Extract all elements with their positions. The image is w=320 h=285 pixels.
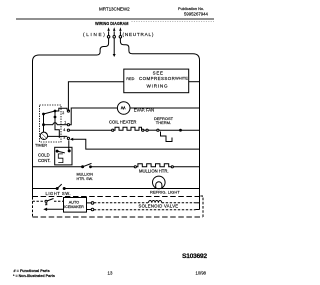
svg-text:SEE: SEE xyxy=(153,71,164,76)
wire evap fan to right rail xyxy=(130,107,200,109)
svg-text:1: 1 xyxy=(64,121,66,125)
timer motor xyxy=(40,132,47,139)
timer terminals xyxy=(67,110,69,112)
svg-text:COLD: COLD xyxy=(38,153,50,158)
plug prong line xyxy=(107,27,110,38)
svg-text:REFRIG. LIGHT: REFRIG. LIGHT xyxy=(150,190,180,195)
ground prong stub with arrow xyxy=(113,38,115,54)
icemaker upper dashed wire xyxy=(33,200,45,202)
wire resistor to defrost thermostat xyxy=(144,129,146,131)
wire timer T3 to right rail xyxy=(71,139,200,149)
timer contact dots and arms xyxy=(43,108,68,138)
cold control box xyxy=(55,147,72,165)
left rail dashed lower part xyxy=(32,197,34,217)
plug prong neutral xyxy=(119,27,122,38)
plug prong ground xyxy=(113,27,116,38)
wire compressor to right rail (WHITE) xyxy=(189,81,200,83)
svg-text:LIGHT SW.: LIGHT SW. xyxy=(46,191,72,196)
right rail bottom stub xyxy=(196,209,200,211)
svg-text:5995267944: 5995267944 xyxy=(184,11,209,16)
wire switch to mullion heater xyxy=(91,166,134,168)
svg-text:2: 2 xyxy=(62,111,64,115)
refrigerator light bulb xyxy=(153,176,166,189)
dashed wire icemaker to solenoid xyxy=(94,202,148,204)
coil heater resistor xyxy=(112,127,144,131)
mullion heater row wire xyxy=(33,166,82,168)
svg-text:HTR. SW.: HTR. SW. xyxy=(77,177,93,181)
svg-text:10/98: 10/98 xyxy=(196,270,207,275)
mullion heater switch xyxy=(82,163,92,167)
svg-text:MULLION HTR.: MULLION HTR. xyxy=(139,169,169,174)
svg-text:* = Non-Illustrated Parts: * = Non-Illustrated Parts xyxy=(13,274,55,278)
wire timer T4 to coil heater xyxy=(70,129,113,131)
svg-text:Publication No.: Publication No. xyxy=(178,6,204,11)
dashed lower icemaker wire to rail xyxy=(94,209,196,211)
svg-text:S103692: S103692 xyxy=(182,253,207,260)
wire defrost thermostat to right rail xyxy=(159,129,200,131)
wire switch to light xyxy=(65,188,199,190)
svg-text:(NEUTRAL): (NEUTRAL) xyxy=(123,32,155,37)
light switch xyxy=(56,184,65,189)
svg-text:SOLENOID VALVE: SOLENOID VALVE xyxy=(139,203,179,208)
bottom dashed rail xyxy=(33,216,204,218)
svg-text:AUTO: AUTO xyxy=(69,200,80,204)
icemaker terminals xyxy=(87,203,92,210)
dashed right bracket of icemaker enclosure xyxy=(199,196,203,217)
defrost thermostat xyxy=(146,129,172,141)
svg-text:RED: RED xyxy=(126,77,134,81)
compressor box xyxy=(124,69,189,93)
svg-text:EVAP. FAN: EVAP. FAN xyxy=(134,108,154,113)
wire mullion heater to right rail xyxy=(173,166,199,168)
wire timer T1 to evap fan xyxy=(70,108,118,125)
auto icemaker box xyxy=(64,198,87,213)
wire neutral from plug to right rail xyxy=(120,38,199,209)
light row wire xyxy=(33,188,57,190)
svg-text:THERM.: THERM. xyxy=(156,120,171,125)
svg-text:CONT.: CONT. xyxy=(38,158,51,163)
junction dot xyxy=(180,129,182,131)
svg-text:MRT13CNEW2: MRT13CNEW2 xyxy=(99,7,130,12)
svg-text:COMPRESSOR: COMPRESSOR xyxy=(139,76,175,81)
wire line from plug to left rail xyxy=(33,38,109,197)
header rule xyxy=(16,19,214,20)
svg-text:4: 4 xyxy=(63,128,65,132)
cold control contacts xyxy=(56,150,70,163)
svg-text:13: 13 xyxy=(108,270,113,275)
dotted leader after title xyxy=(132,21,215,23)
wire timer T2 to compressor (RED) xyxy=(68,82,124,111)
defrost timer dashed box xyxy=(40,105,62,142)
svg-text:COIL HEATER: COIL HEATER xyxy=(109,120,136,125)
svg-text:WIRING DIAGRAM: WIRING DIAGRAM xyxy=(95,21,129,26)
icemaker switch xyxy=(45,199,54,203)
svg-text:WIRING: WIRING xyxy=(147,84,169,89)
icemaker left arrow wire xyxy=(47,208,64,210)
svg-text:(LINE): (LINE) xyxy=(83,32,106,37)
solenoid valve coil xyxy=(149,201,162,203)
svg-text:3: 3 xyxy=(63,135,65,139)
svg-text:ICEMAKER: ICEMAKER xyxy=(64,205,84,209)
wire junction timer T3 to cold control xyxy=(68,140,70,150)
evap fan motor xyxy=(117,102,130,115)
dashed wire solenoid to right rail xyxy=(162,202,195,204)
svg-text:TIMER: TIMER xyxy=(35,143,47,148)
mullion heater resistor xyxy=(134,164,173,168)
icemaker option dashed boundary xyxy=(33,196,204,198)
svg-text:# = Functional Parts: # = Functional Parts xyxy=(14,269,50,273)
svg-text:WHITE: WHITE xyxy=(175,75,188,80)
